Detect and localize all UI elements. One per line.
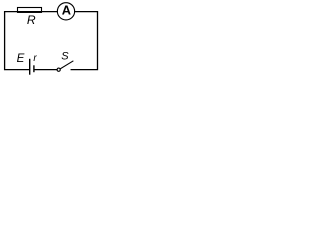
svg-text:r: r (33, 53, 37, 64)
svg-text:A: A (62, 3, 71, 18)
svg-text:R: R (27, 13, 36, 27)
svg-text:E: E (17, 52, 25, 65)
svg-text:S: S (61, 51, 69, 63)
